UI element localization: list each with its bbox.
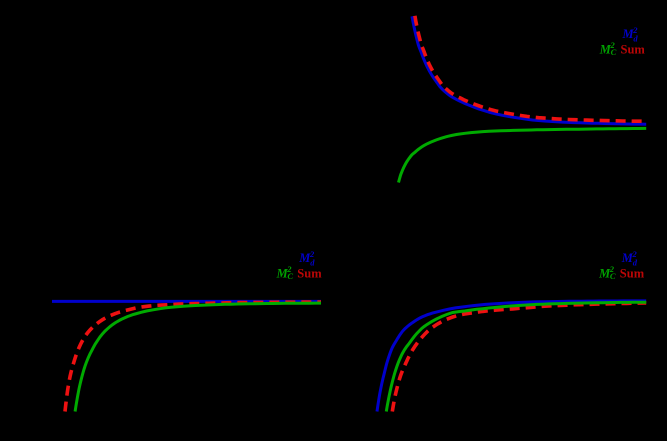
top-right legend label M_C^2 (green) [599, 40, 617, 57]
bottom-left panel: green curve M_C^2 [75, 303, 321, 411]
top-right panel: blue curve M_d^2 [412, 16, 646, 124]
top-right panel: green curve M_C^2 [399, 128, 647, 182]
svg-text:C: C [611, 47, 617, 57]
bottom-right legend label Sum (red) [620, 266, 645, 280]
svg-text:Sum: Sum [621, 42, 646, 56]
top-right legend label M_d^2 (blue) [622, 25, 639, 44]
bottom-right panel: green curve M_C^2 [386, 302, 646, 411]
svg-text:C: C [287, 271, 293, 281]
bottom-right legend label M_C^2 (green) [598, 264, 616, 281]
bottom-left panel: blue horizontal line M_d^2 [52, 300, 321, 303]
bottom-left legend label Sum (red) [297, 266, 322, 280]
bottom-right panel: red dashed curve Sum [392, 303, 646, 412]
bottom-left legend label M_d^2 (blue) [298, 249, 315, 267]
svg-text:Sum: Sum [620, 266, 645, 280]
bottom-left legend label M_C^2 (green) [276, 264, 294, 281]
bottom-left panel: red dashed curve Sum [65, 302, 321, 411]
svg-text:Sum: Sum [297, 266, 322, 280]
bottom-right legend label M_d^2 (blue) [621, 249, 638, 267]
svg-text:C: C [610, 271, 616, 281]
top-right panel: red dashed curve Sum [415, 16, 646, 122]
top-right legend label Sum (red) [621, 42, 646, 56]
bottom-right panel: blue curve M_d^2 [377, 301, 646, 412]
